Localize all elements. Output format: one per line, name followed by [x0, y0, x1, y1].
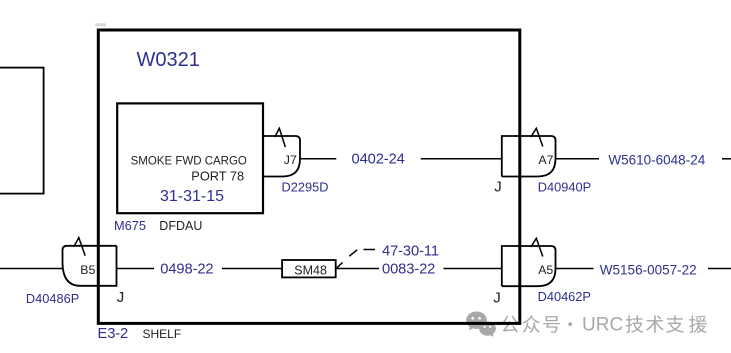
svg-text:A5: A5: [538, 263, 553, 277]
svg-text:J: J: [494, 178, 502, 195]
svg-text:J7: J7: [284, 153, 297, 167]
svg-text:M675: M675: [114, 218, 146, 233]
svg-text:0498-22: 0498-22: [160, 262, 213, 278]
svg-text:SMOKE FWD CARGO: SMOKE FWD CARGO: [131, 155, 247, 167]
svg-text:W5156-0057-22: W5156-0057-22: [600, 263, 697, 278]
svg-text:W5610-6048-24: W5610-6048-24: [608, 152, 705, 167]
svg-text:31-31-15: 31-31-15: [160, 188, 224, 205]
svg-text:0402-24: 0402-24: [352, 152, 405, 168]
svg-text:D40940P: D40940P: [538, 179, 591, 194]
svg-text:SM48: SM48: [294, 263, 327, 277]
svg-text:D40486P: D40486P: [26, 291, 79, 306]
svg-text:DFDAU: DFDAU: [159, 219, 202, 233]
svg-text:E3-2: E3-2: [98, 326, 129, 342]
svg-text:J: J: [117, 289, 125, 306]
svg-text:D2295D: D2295D: [282, 180, 329, 195]
svg-text:0083-22: 0083-22: [382, 262, 435, 278]
svg-text:D40462P: D40462P: [538, 289, 591, 304]
svg-text:W0321: W0321: [137, 49, 200, 71]
svg-text:J: J: [493, 289, 501, 306]
svg-text:A7: A7: [538, 153, 553, 167]
svg-text:47-30-11: 47-30-11: [382, 243, 439, 259]
svg-text:URC: URC: [582, 314, 623, 335]
svg-text:SHELF: SHELF: [143, 327, 182, 341]
svg-text:B5: B5: [80, 263, 95, 277]
svg-text:PORT 78: PORT 78: [191, 169, 244, 184]
